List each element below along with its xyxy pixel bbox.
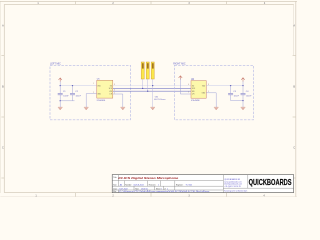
IC U2 ICS-43434 microphone [188,79,209,102]
node J3 junction [152,85,153,86]
node junction C3 [230,85,231,86]
ground under U1 L/R [121,107,126,109]
svg-text:Sheet: Sheet [156,187,161,190]
svg-text:C: C [2,147,4,150]
node junction C4 [242,85,243,86]
LEFT MIC blanket box [50,63,130,120]
svg-text:100nF: 100nF [76,95,82,97]
contact info [224,178,247,192]
svg-text:21.07.2022: 21.07.2022 [119,188,128,190]
wire cap bottoms [60,100,74,102]
svg-text:1: 1 [167,188,168,190]
svg-text:100nF: 100nF [246,95,252,97]
wire SD bus line1 [113,85,191,87]
svg-text:100nF: 100nF [63,95,69,97]
svg-text:WS: WS [109,91,112,93]
sheet frame [0,1,297,196]
svg-text:Keizersgracht 12, Amsterdam: Keizersgracht 12, Amsterdam [224,190,247,193]
node junction rail bend [60,85,61,86]
capacitor C2 [72,86,74,101]
ground under C1 [58,107,63,109]
svg-text:C: C [293,147,295,150]
svg-text:13:24:55: 13:24:55 [141,188,148,190]
svg-text:QUICKBOARDS: QUICKBOARDS [249,178,292,187]
wire WS bus line3 [113,90,191,92]
node J2 junction [147,91,148,92]
RIGHT MIC blanket box [173,62,253,120]
wire U2 GND pin [206,93,216,107]
wire VDD rail right [206,85,243,87]
svg-text:1: 1 [158,184,159,186]
title block [112,175,293,194]
wire L/R to VDD [180,79,191,94]
wire U1 L/R to ground [113,94,123,107]
svg-text:LEFT MIC: LEFT MIC [50,63,61,66]
capacitor C3 [230,86,232,101]
svg-text:04-ICS Digital Stereo Micropho: 04-ICS Digital Stereo Microphone [118,176,178,180]
ground under C4 [241,107,246,109]
connector pad J3 [151,62,154,79]
node junction C2 branch [72,85,73,86]
ground under J3 [150,107,155,109]
svg-text:WS: WS [192,91,195,93]
svg-text:TC Vahl: TC Vahl [186,184,193,186]
svg-text:ICS-43434: ICS-43434 [191,100,200,102]
svg-text:04-ICS-2022: 04-ICS-2022 [134,184,144,186]
power VDD arrow left [59,78,62,82]
power VDD arrow right box L/R [179,76,183,80]
svg-text:Revision:: Revision: [149,184,156,186]
svg-text:Date:: Date: [113,187,118,190]
capacitor C4 [242,86,244,101]
svg-text:ICS-43434: ICS-43434 [97,100,106,102]
node junction cap bottoms right [242,100,243,101]
svg-text:+31 (0)6 12 34 56 78: +31 (0)6 12 34 56 78 [224,186,240,188]
svg-text:100nF: 100nF [234,95,240,97]
wire SCK bus line2 [113,87,191,89]
wire J2 drop [147,79,149,91]
wire U1 GND pin [86,94,96,108]
svg-text:A4: A4 [120,183,122,186]
wire J1 drop [142,79,144,88]
wire cap bottoms right [231,100,243,102]
svg-text:RIGHT MIC: RIGHT MIC [173,62,186,65]
svg-text:Time:: Time: [135,188,140,190]
power VDD arrow right [241,78,244,82]
svg-text:File:: File: [113,191,117,193]
node junction cap bottoms [60,100,61,101]
ground under U2 GND [214,107,219,109]
connector pad J1 [141,62,144,79]
svg-text:Size: Size [113,184,116,186]
svg-text:C:\Users\TCVahl\Documents\04-I: C:\Users\TCVahl\Documents\04-ICS\04-ICS.… [119,190,210,193]
svg-text:Title: Title [113,176,116,179]
IC U1 ICS-43434 microphone [93,78,115,102]
ground under U1 GND [84,107,89,109]
wire J3 drop to ground [152,79,154,107]
svg-text:Number:: Number: [125,183,132,186]
svg-text:Engineer:: Engineer: [176,183,184,186]
node J1 junction [142,88,143,89]
wire VDD rail left [60,82,96,86]
connector pad J2 [146,62,149,79]
zone labels [2,2,295,198]
capacitor C1 [59,86,61,101]
svg-text:1: 1 [161,188,162,190]
